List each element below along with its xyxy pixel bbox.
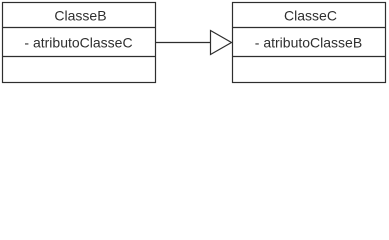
svg-text:ClasseB: ClasseB <box>54 7 106 23</box>
svg-text:- atributoClasseB: - atributoClasseB <box>255 34 362 50</box>
class ClasseB title/attribute divider <box>3 27 156 29</box>
svg-text:- atributoClasseC: - atributoClasseC <box>24 34 132 50</box>
svg-text:ClasseC: ClasseC <box>284 7 337 23</box>
generalization wire ClasseB to ClasseC <box>156 42 211 44</box>
class ClasseC title/attribute divider <box>233 27 386 29</box>
class ClasseC attribute/operations divider <box>233 56 386 58</box>
class box ClasseC outer frame <box>233 3 386 83</box>
class ClasseB attribute/operations divider <box>3 56 156 58</box>
class box ClasseB outer frame <box>3 3 156 83</box>
generalization hollow triangle arrowhead <box>211 31 232 55</box>
